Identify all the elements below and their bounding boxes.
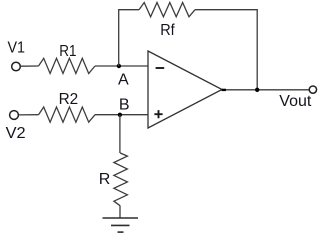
node A [117,64,121,68]
wire [195,10,257,90]
svg-text:A: A [118,71,129,88]
node (op-amp output) [222,89,226,91]
svg-text:Vout: Vout [279,93,312,110]
wire [119,115,121,153]
node B [118,113,122,117]
wire [95,65,148,67]
wire [119,206,121,218]
pin + (non-inverting input) [154,110,162,118]
svg-text:V1: V1 [8,39,26,56]
terminal V2 [10,111,19,120]
svg-text:V2: V2 [6,125,26,142]
svg-text:Rf: Rf [160,22,175,39]
resistor R [114,153,128,206]
svg-text:R: R [99,171,111,188]
ground [103,218,139,232]
op-amp U1 [148,51,222,128]
terminal V1 [12,62,21,71]
wire [119,10,139,66]
svg-text:R1: R1 [59,43,76,60]
node (output junction) [255,88,259,92]
svg-text:R2: R2 [59,91,79,108]
wire [21,65,39,67]
wire [19,114,39,116]
resistor R1 [39,58,96,73]
wire [222,89,309,91]
terminal Vout [309,86,316,93]
svg-text:B: B [119,96,130,113]
pin - (inverting input) [156,67,165,69]
resistor R2 [39,107,96,122]
wire [95,114,148,116]
resistor Rf [139,3,195,17]
